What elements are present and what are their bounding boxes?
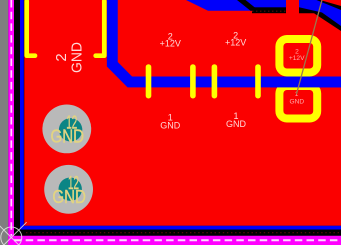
wire bottom-copper top band (blue)	[186, 0, 299, 11]
svg-text:+12V: +12V	[225, 37, 246, 47]
airwire ratsnest line	[297, 0, 323, 94]
black strip lower half of top band	[252, 7, 287, 13]
wire thick blue trace from top to horizontal band	[112, 0, 341, 82]
svg-text:+12V: +12V	[160, 38, 181, 48]
magenta bottom band redraw over blue line end	[8, 236, 341, 245]
component X1 outline left bracket	[27, 1, 35, 56]
svg-text:GND: GND	[160, 121, 181, 131]
gray margin strip left	[0, 0, 8, 245]
wire blue band bend at top-right corner	[299, 0, 341, 26]
via V1 hole	[59, 118, 82, 141]
connector X3 pad 2 outline (yellow rounded)	[279, 39, 317, 73]
svg-text:GND: GND	[289, 98, 304, 105]
svg-text:GND: GND	[226, 119, 247, 129]
via V2 ring	[44, 165, 93, 214]
board outline band left (magenta)	[8, 0, 14, 245]
red trace crossing top band	[286, 0, 299, 15]
target fiducial symbol bottom-left	[0, 222, 27, 245]
hatch dots row (dark red)	[26, 232, 341, 234]
via V1 ring	[42, 104, 91, 153]
label X1 "2 GND" rotated	[53, 42, 85, 73]
dimension centerline horizontal (white dashed)	[14, 239, 341, 241]
red corner wedge top-right	[320, 0, 341, 6]
pad P1 yellow bar	[146, 67, 152, 96]
pad P2 yellow bar	[190, 67, 196, 96]
svg-text:+12V: +12V	[289, 55, 305, 62]
pad P4 yellow bar	[255, 67, 261, 96]
dimension centerline vertical (white dashed)	[10, 0, 12, 245]
board outline band bottom (magenta)	[8, 236, 341, 245]
svg-text:GND: GND	[51, 127, 85, 147]
pad P3 yellow bar	[212, 67, 218, 96]
component X1 outline right bracket	[96, 1, 105, 56]
connector X3 pad 1 outline (yellow rounded)	[279, 86, 317, 119]
black diagonal stripe across top band	[237, 0, 259, 11]
black corner isolation top-right	[299, 0, 341, 31]
black band above bottom magenta	[14, 230, 341, 236]
hatch dots in top black strip	[252, 10, 286, 12]
dimension centerline horizontal again	[14, 239, 341, 241]
via V2 hole	[58, 178, 81, 201]
blue band redrawn over connector	[270, 77, 341, 88]
svg-text:GND: GND	[69, 42, 86, 73]
svg-text:GND: GND	[52, 187, 86, 207]
